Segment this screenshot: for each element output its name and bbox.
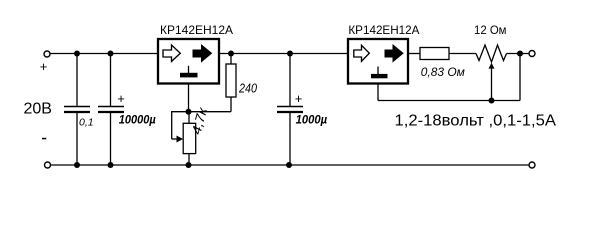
node pot bottom junction: [186, 162, 192, 168]
U2 input arrow (open): [354, 45, 370, 61]
node wiper junction: [489, 98, 495, 104]
svg-text:12 Ом: 12 Ом: [474, 23, 507, 37]
svg-text:0,1: 0,1: [79, 117, 94, 129]
resistor R 0,83 Om body: [420, 48, 449, 60]
wire R 0,83 to rheostat: [449, 53, 476, 55]
capacitor C2 10000u: [98, 54, 125, 166]
U2 output arrow (solid): [385, 45, 403, 62]
node C2 top junction: [108, 51, 114, 57]
wire wiper loop to potentiometer: [172, 112, 189, 143]
capacitor C1 0,1: [64, 54, 90, 166]
potentiometer R 4,7k body: [183, 112, 196, 165]
wire U2 adj feedback loop: [378, 54, 520, 101]
label - (input polarity): [42, 138, 46, 140]
U1 input arrow (open): [163, 45, 180, 61]
terminal input +: [44, 51, 50, 57]
resistor R 240: [226, 54, 236, 112]
node adj junction: [186, 109, 192, 115]
node C3 top junction: [287, 51, 293, 57]
U2 common pin symbol: [371, 67, 388, 79]
wire rheostat wiper arrow: [489, 63, 495, 101]
terminal output -: [529, 162, 535, 168]
svg-text:1000µ: 1000µ: [296, 113, 328, 127]
regulator U2 KR142EN12A box: [348, 39, 408, 84]
regulator U1 KR142EN12A box: [158, 39, 219, 84]
svg-text:КР142ЕН12А: КР142ЕН12А: [160, 23, 233, 37]
terminal input -: [45, 162, 51, 168]
svg-text:20В: 20В: [24, 101, 52, 118]
svg-text:+: +: [295, 91, 303, 106]
svg-text:10000µ: 10000µ: [119, 113, 156, 127]
wire top rail input to U1: [50, 53, 158, 55]
wire U1 adj pin down: [188, 84, 190, 112]
terminal output +: [529, 51, 535, 57]
node output junction: [517, 51, 523, 57]
wire adj node to R240 bottom: [189, 111, 232, 113]
U1 common pin symbol: [180, 66, 198, 78]
node C2 bottom junction: [108, 162, 114, 168]
svg-text:+: +: [40, 59, 48, 74]
capacitor C3 1000u: [277, 54, 303, 166]
U1 output arrow (solid): [193, 45, 212, 62]
node R240 top junction: [228, 51, 234, 57]
svg-text:240: 240: [238, 81, 257, 96]
wire U2 output to R 0,83: [408, 53, 420, 55]
svg-text:КР142ЕН12А: КР142ЕН12А: [348, 23, 419, 37]
wire rheostat to output node: [507, 53, 530, 55]
svg-text:+: +: [117, 91, 125, 106]
node C1 top junction: [74, 51, 80, 57]
svg-text:0,83 Ом: 0,83 Ом: [421, 65, 465, 79]
rheostat R 12 Om zigzag: [476, 45, 507, 62]
svg-text:1,2-18вольт ,0,1-1,5А: 1,2-18вольт ,0,1-1,5А: [395, 113, 557, 130]
wire U1 output to U2 input: [219, 53, 348, 55]
node C1 bottom junction: [74, 162, 80, 168]
node C3 bottom junction: [286, 162, 292, 168]
wire bottom rail: [51, 164, 529, 166]
